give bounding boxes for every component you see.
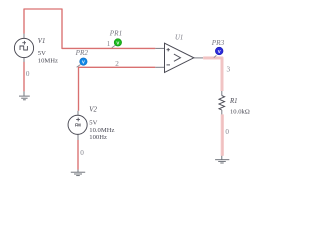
pin stub V2 top — [77, 111, 79, 116]
pin stub V1 bottom — [23, 58, 25, 62]
svg-text:R1: R1 — [229, 98, 238, 105]
svg-text:10MHz: 10MHz — [38, 58, 58, 65]
pin stub V2 bottom — [77, 134, 79, 140]
resistor R1 — [219, 91, 225, 114]
svg-text:V1: V1 — [38, 38, 46, 45]
svg-text:3: 3 — [227, 66, 231, 74]
wire R1 bottom to ground — [221, 114, 224, 155]
wire net 1: V1 top to U1 + input — [24, 9, 155, 48]
svg-text:U1: U1 — [175, 35, 183, 42]
svg-text:PR2: PR2 — [75, 49, 89, 57]
svg-text:V: V — [218, 49, 221, 54]
pin stub U1 - input — [155, 66, 164, 68]
svg-text:5V: 5V — [89, 119, 97, 126]
voltage source V1 — [14, 38, 33, 57]
svg-text:FM: FM — [75, 122, 81, 127]
svg-text:2: 2 — [115, 60, 119, 68]
wire V1 bottom to ground — [23, 62, 25, 92]
svg-text:1: 1 — [107, 40, 111, 48]
pin stub V1 top — [23, 34, 25, 39]
svg-text:0: 0 — [26, 70, 30, 78]
pin stub U1 + input — [155, 47, 164, 49]
voltage source V2 (FM) — [68, 115, 87, 134]
svg-text:0: 0 — [225, 128, 229, 136]
ground under R1 — [215, 156, 229, 163]
svg-text:10.0kΩ: 10.0kΩ — [230, 109, 250, 116]
probe PR3 — [214, 47, 223, 58]
svg-text:10.0MHz: 10.0MHz — [89, 127, 114, 134]
wire net 3: U1 output to R1 — [203, 58, 222, 91]
svg-text:PR3: PR3 — [211, 39, 225, 47]
svg-text:V2: V2 — [89, 106, 97, 113]
pin stub U1 output — [194, 57, 203, 59]
svg-text:PR1: PR1 — [109, 30, 122, 38]
wire net 2: V2 top to U1 - input — [79, 67, 156, 111]
svg-text:0: 0 — [80, 149, 84, 157]
svg-text:5V: 5V — [38, 50, 46, 57]
svg-text:100Hz: 100Hz — [89, 134, 107, 141]
svg-text:V: V — [82, 60, 85, 65]
ground under V2 — [71, 170, 85, 176]
svg-text:V: V — [116, 40, 119, 45]
probe PR1 — [112, 39, 122, 48]
comparator U1 — [165, 43, 194, 72]
ground under V1 — [19, 91, 30, 99]
wire V2 bottom to ground — [77, 140, 79, 170]
probe PR2 — [77, 58, 88, 67]
